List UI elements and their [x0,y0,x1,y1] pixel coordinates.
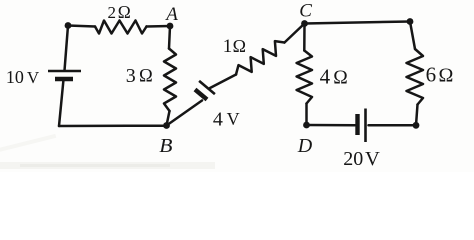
svg-text:3: 3 [126,65,136,87]
svg-text:20: 20 [343,148,363,170]
svg-text:Ω: Ω [118,2,131,22]
svg-text:A: A [164,4,178,25]
svg-text:4: 4 [213,109,223,131]
svg-text:6: 6 [426,63,437,87]
svg-text:C: C [299,1,312,22]
svg-text:2: 2 [108,3,117,22]
svg-text:Ω: Ω [233,36,246,56]
svg-text:V: V [365,148,380,170]
svg-text:Ω: Ω [139,67,153,87]
svg-text:V: V [27,68,40,87]
svg-text:4: 4 [320,65,331,89]
svg-text:Ω: Ω [439,64,454,86]
svg-text:1: 1 [223,36,233,57]
svg-text:D: D [297,135,313,157]
svg-text:Ω: Ω [333,67,348,88]
svg-text:V: V [227,109,240,129]
svg-text:10: 10 [6,67,24,87]
svg-text:B: B [159,135,172,157]
